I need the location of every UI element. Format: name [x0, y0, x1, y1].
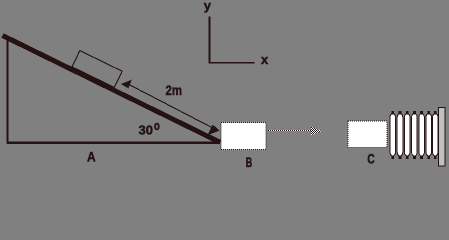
- svg-text:x: x: [261, 52, 269, 67]
- svg-text:30: 30: [139, 123, 153, 138]
- spring loop 1 top cap: [391, 111, 394, 114]
- block B (white, dotted border): [221, 123, 266, 150]
- spring loop 6 top cap: [427, 111, 430, 114]
- spring loop 6: [426, 114, 432, 157]
- incline triangle: bottom ground line: [7, 142, 220, 145]
- spring loop 5: [419, 114, 425, 157]
- incline triangle: left vertical side: [7, 36, 9, 144]
- spring loop 1 bottom cap: [391, 156, 394, 159]
- spring loop 1: [390, 114, 396, 157]
- y axis: [209, 17, 211, 64]
- svg-text:2m: 2m: [166, 82, 183, 98]
- block C (white, dotted border): [348, 121, 387, 148]
- spring loop 2 top cap: [399, 111, 402, 114]
- spring loop 6 bottom cap: [427, 156, 430, 159]
- spring loop 3 bottom cap: [406, 156, 409, 159]
- svg-text:0: 0: [154, 121, 160, 133]
- block on incline: [72, 51, 122, 88]
- 2m dimension line: [129, 84, 215, 128]
- svg-text:A: A: [87, 149, 96, 165]
- spring loop 4 top cap: [413, 111, 416, 114]
- spring loop 2: [397, 114, 403, 157]
- spring loop 7 bottom cap: [434, 156, 437, 159]
- spring loop 4 bottom cap: [413, 156, 416, 159]
- svg-text:y: y: [204, 0, 212, 13]
- spring loop 5 bottom cap: [420, 156, 423, 159]
- spring loop 3: [404, 114, 410, 157]
- svg-text:B: B: [246, 154, 253, 170]
- dotted arrowhead: [311, 127, 322, 136]
- 2m arrowhead lower (points to B): [207, 125, 219, 136]
- wall: [439, 108, 446, 167]
- spring loop 2 bottom cap: [399, 156, 402, 159]
- spring loop 7 top cap: [434, 111, 437, 114]
- spring loop 4: [412, 114, 418, 157]
- spring loop 7: [433, 114, 439, 157]
- spring (7 vertical loops): [390, 114, 438, 157]
- spring loop 5 top cap: [420, 111, 423, 114]
- incline surface (thick hypotenuse): [3, 36, 221, 143]
- svg-text:C: C: [367, 151, 375, 167]
- 2m arrowhead upper (points to block): [121, 80, 132, 89]
- spring loop 3 top cap: [406, 111, 409, 114]
- dotted arrow from B to C: [268, 130, 311, 132]
- x axis: [209, 62, 255, 64]
